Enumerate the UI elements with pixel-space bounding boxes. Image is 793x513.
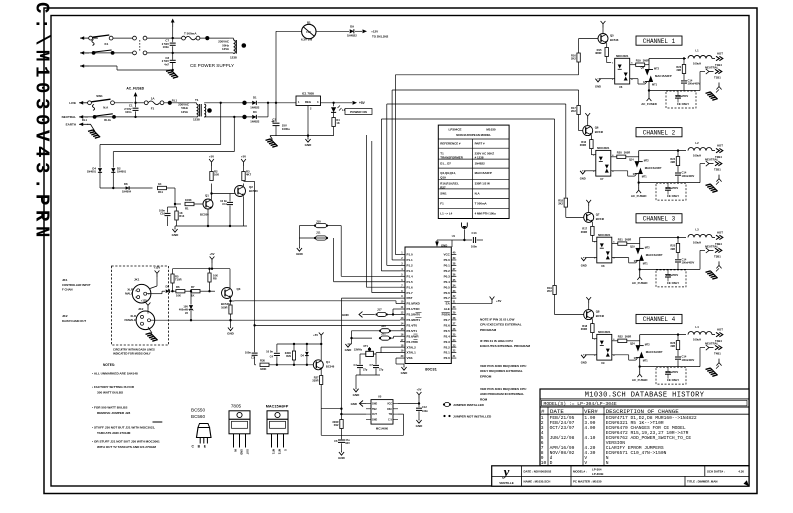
- svg-text:BC546: BC546: [596, 217, 605, 221]
- svg-text:10 0n: 10 0n: [266, 350, 273, 354]
- svg-text:360R: 360R: [625, 237, 631, 241]
- svg-text:GND: GND: [345, 348, 353, 352]
- svg-text:OCT/23/97: OCT/23/97: [550, 425, 575, 431]
- svg-text:TM: TM: [389, 414, 392, 416]
- svg-text:PROGRAM: PROGRAM: [480, 328, 497, 332]
- svg-text:D: D: [550, 460, 553, 466]
- svg-text:4.30: 4.30: [738, 469, 744, 473]
- svg-text:MOC3021: MOC3021: [616, 54, 629, 58]
- svg-text:EXECUTES INTERNAL PROGRAM: EXECUTES INTERNAL PROGRAM: [480, 344, 531, 348]
- svg-text:SW1: SW1: [440, 192, 447, 196]
- svg-text:T4B1: T4B1: [714, 352, 721, 356]
- svg-text:GND: GND: [240, 449, 244, 455]
- svg-text:39R: 39R: [670, 160, 675, 164]
- svg-text:100n/250V: 100n/250V: [666, 187, 679, 190]
- svg-text:P0.7: P0.7: [444, 296, 451, 300]
- svg-text:AC_FUSED: AC_FUSED: [631, 194, 647, 198]
- svg-text:P0.2: P0.2: [444, 269, 451, 273]
- svg-text:T1B1: T1B1: [714, 76, 721, 80]
- svg-text:Q24: Q24: [630, 343, 635, 346]
- svg-text:Q19: Q19: [630, 245, 635, 248]
- svg-text:REFERENCE #: REFERENCE #: [440, 142, 461, 146]
- svg-text:BC560: BC560: [191, 414, 205, 419]
- svg-text:L4: L4: [695, 325, 699, 329]
- svg-text:WITH OUT T2 TABCATS AND ES 27O: WITH OUT T2 TABCATS AND ES 27OHM: [97, 445, 156, 449]
- svg-text:FEMALE: FEMALE: [125, 318, 137, 322]
- svg-text:12VA: 12VA: [222, 47, 230, 51]
- svg-text:DATE: DATE: [550, 408, 564, 415]
- svg-text:100n/250V: 100n/250V: [666, 274, 679, 277]
- svg-text:2K2: 2K2: [547, 289, 552, 293]
- svg-text:MOC3021: MOC3021: [597, 146, 610, 150]
- svg-text:360R: 360R: [625, 335, 631, 339]
- svg-text:P2.4: P2.4: [444, 334, 451, 338]
- svg-text:M1030.SCH DATABASE HISTORY: M1030.SCH DATABASE HISTORY: [585, 392, 705, 400]
- svg-text:R8: R8: [213, 277, 217, 281]
- svg-text:1N4822: 1N4822: [475, 162, 486, 166]
- svg-text:80C31: 80C31: [425, 367, 438, 372]
- svg-text:D3: D3: [253, 110, 257, 114]
- svg-text:Q6: Q6: [595, 126, 599, 130]
- svg-text:GND: GND: [416, 424, 424, 428]
- svg-text:R29: R29: [286, 354, 291, 358]
- svg-text:300 WATT BULBS: 300 WATT BULBS: [97, 391, 123, 395]
- svg-text:U7: U7: [600, 177, 604, 181]
- svg-text:P3.4/T0: P3.4/T0: [407, 323, 418, 327]
- svg-text:NEUTRAL: NEUTRAL: [705, 244, 719, 248]
- svg-text:U9: U9: [601, 361, 605, 365]
- svg-text:MT1: MT1: [643, 262, 649, 265]
- svg-text:P2.6: P2.6: [444, 323, 451, 327]
- svg-text:100n: 100n: [125, 110, 132, 114]
- svg-text:P3.0/RXD: P3.0/RXD: [407, 302, 421, 306]
- svg-text:Q19: Q19: [440, 175, 446, 179]
- svg-text:+5V: +5V: [209, 252, 214, 256]
- svg-text:NAME : M1030.SCH: NAME : M1030.SCH: [524, 480, 551, 484]
- svg-text:7805: 7805: [231, 404, 242, 409]
- svg-text:POWER ON: POWER ON: [350, 110, 367, 114]
- svg-text:CE ONLY: CE ONLY: [667, 194, 679, 198]
- svg-text:IC1 7805: IC1 7805: [302, 91, 315, 95]
- svg-text:P1.4: P1.4: [407, 274, 414, 278]
- svg-text:1N4001: 1N4001: [87, 170, 97, 174]
- svg-text:G: G: [634, 357, 636, 360]
- svg-text:VENTILLE: VENTILLE: [499, 481, 514, 485]
- svg-text:63V: 63V: [345, 441, 350, 445]
- svg-text:• ALL UNMARKED ARE 1N4148: • ALL UNMARKED ARE 1N4148: [92, 371, 138, 375]
- svg-text:MOC3021: MOC3021: [598, 233, 611, 237]
- svg-text:CONTROLLER INPUT: CONTROLLER INPUT: [62, 283, 91, 287]
- svg-text:K1: K1: [105, 42, 109, 46]
- svg-text:T10R: T10R: [175, 278, 182, 282]
- svg-text:R27: R27: [440, 186, 446, 190]
- svg-text:G: G: [284, 449, 288, 451]
- svg-text:C.V: C.V: [388, 419, 392, 421]
- svg-text:B1: B1: [307, 21, 311, 25]
- svg-text:MODEL(S) := LP-304/LP-304E: MODEL(S) := LP-304/LP-304E: [544, 401, 617, 407]
- svg-text:P1.0: P1.0: [407, 253, 414, 257]
- svg-text:+5V: +5V: [359, 101, 366, 105]
- svg-text:MAC15A6FP: MAC15A6FP: [475, 171, 492, 175]
- svg-text:RL1: RL1: [172, 98, 178, 102]
- svg-text:T2B1: T2B1: [714, 168, 721, 172]
- svg-text:GND: GND: [172, 233, 180, 237]
- svg-text:1238: 1238: [193, 117, 200, 121]
- svg-text:P1.3: P1.3: [407, 269, 414, 273]
- svg-text:DAISYCHAIN OUT: DAISYCHAIN OUT: [62, 319, 86, 323]
- svg-text:P1.1: P1.1: [407, 258, 414, 262]
- svg-text:GND: GND: [372, 419, 377, 421]
- svg-text:CHANNEL 2: CHANNEL 2: [643, 129, 676, 136]
- svg-text:T3B1: T3B1: [714, 254, 721, 258]
- svg-text:C7: C7: [369, 363, 373, 367]
- svg-text:P0.0: P0.0: [444, 258, 451, 262]
- svg-text:HOT: HOT: [717, 230, 723, 234]
- svg-text:AC_FUSED: AC_FUSED: [126, 86, 144, 90]
- svg-text:4.00: 4.00: [584, 425, 595, 431]
- svg-text:AC_FUSED: AC_FUSED: [632, 378, 648, 382]
- svg-text:12MHz: 12MHz: [354, 347, 363, 351]
- svg-text:MT2: MT2: [645, 344, 651, 347]
- svg-text:C2: C2: [272, 117, 276, 121]
- svg-text:MODEL# :: MODEL# :: [573, 469, 587, 473]
- svg-text:100n: 100n: [471, 245, 477, 249]
- svg-text:1K: 1K: [191, 293, 194, 297]
- svg-text:R20: R20: [617, 151, 622, 155]
- svg-text:F1C: F1C: [306, 30, 311, 34]
- svg-text:R21: R21: [618, 237, 623, 241]
- svg-text:JUMPER NOT INSTALLED: JUMPER NOT INSTALLED: [453, 414, 492, 418]
- svg-text:VCC: VCC: [387, 404, 392, 406]
- svg-text:L1: L1: [695, 49, 699, 53]
- svg-text:360R: 360R: [595, 51, 601, 55]
- svg-text:CE ONLY: CE ONLY: [677, 102, 689, 106]
- svg-text:P0.3: P0.3: [444, 274, 451, 278]
- svg-text:1N4822: 1N4822: [250, 105, 260, 109]
- svg-text:BC550: BC550: [191, 408, 205, 413]
- svg-text:N: N: [606, 460, 609, 466]
- svg-text:C B E: C B E: [192, 445, 208, 449]
- svg-text:y: y: [502, 464, 510, 479]
- svg-text:100n/400V: 100n/400V: [688, 82, 701, 86]
- svg-text:C4: C4: [270, 355, 274, 359]
- svg-text:360R: 360R: [580, 143, 586, 147]
- svg-text:CHANNEL 1: CHANNEL 1: [643, 38, 676, 45]
- svg-text:NEUTRAL: NEUTRAL: [705, 158, 719, 162]
- svg-text:IF PIN 31 IS HIGH CPU: IF PIN 31 IS HIGH CPU: [480, 339, 514, 343]
- svg-text:P1.7: P1.7: [407, 291, 414, 295]
- svg-text:Q8: Q8: [596, 310, 600, 314]
- svg-text:+5V: +5V: [241, 155, 246, 159]
- svg-text:VSS: VSS: [407, 356, 413, 360]
- svg-text:100uH: 100uH: [693, 338, 701, 342]
- svg-text:AC_FUSED: AC_FUSED: [632, 281, 648, 285]
- svg-text:RL1: RL1: [82, 118, 88, 122]
- svg-text:CIRCUITRY WITHIN DASH LINES: CIRCUITRY WITHIN DASH LINES: [113, 348, 155, 352]
- svg-text:R12: R12: [334, 423, 339, 427]
- svg-text:F1: F1: [440, 201, 444, 205]
- svg-text:27p: 27p: [363, 369, 368, 372]
- svg-text:4n7: 4n7: [164, 62, 169, 66]
- svg-text:1N4001: 1N4001: [117, 170, 127, 174]
- svg-text:SW1: SW1: [96, 94, 103, 98]
- svg-text:J11: J11: [316, 231, 321, 235]
- svg-text:Q4: Q4: [326, 360, 330, 364]
- svg-text:R22: R22: [618, 335, 623, 339]
- svg-text:R7: R7: [191, 285, 195, 289]
- svg-text:GND: GND: [338, 456, 346, 460]
- svg-text:BC546: BC546: [596, 314, 605, 318]
- svg-text:C11: C11: [222, 202, 227, 206]
- svg-text:TABCATS AND 27OHM: TABCATS AND 27OHM: [97, 431, 131, 435]
- svg-text:GND: GND: [227, 332, 235, 336]
- svg-text:P0.5: P0.5: [444, 285, 451, 289]
- svg-text:P1.2: P1.2: [407, 264, 414, 268]
- svg-text:+5V: +5V: [313, 333, 318, 337]
- svg-text:Q1: Q1: [205, 194, 209, 198]
- svg-text:BC546: BC546: [610, 38, 619, 42]
- svg-text:MAC15A6FP: MAC15A6FP: [646, 350, 663, 354]
- svg-text:G: G: [634, 260, 636, 263]
- svg-text:NEUTRAL: NEUTRAL: [705, 66, 719, 70]
- svg-text:G: G: [633, 173, 635, 176]
- svg-text:BC546: BC546: [326, 365, 335, 369]
- svg-text:2K2: 2K2: [558, 202, 563, 206]
- svg-text:P2.0: P2.0: [444, 356, 451, 360]
- svg-text:+5V: +5V: [209, 155, 214, 159]
- svg-text:10K: 10K: [214, 173, 219, 177]
- svg-text:GND: GND: [296, 252, 304, 256]
- svg-text:P1.6: P1.6: [407, 285, 414, 289]
- svg-text:L1 --> L4: L1 --> L4: [440, 211, 452, 215]
- svg-text:100R: 100R: [221, 305, 227, 309]
- svg-text:• OR STUFF J21 NOT BUT J36 WI: • OR STUFF J21 NOT BUT J36 WITH MOC3061: [92, 440, 160, 444]
- svg-text:HOT: HOT: [717, 144, 723, 148]
- svg-text:U5: U5: [378, 395, 382, 399]
- svg-text:T 500mA: T 500mA: [475, 201, 488, 205]
- svg-text:XTAL2: XTAL2: [407, 345, 417, 349]
- svg-text:100n/250V: 100n/250V: [666, 371, 679, 374]
- svg-text:T1: T1: [195, 98, 199, 102]
- svg-text:EARTH: EARTH: [66, 123, 76, 127]
- svg-text:330R 1/2 W: 330R 1/2 W: [475, 181, 491, 185]
- svg-text:C:\M1030V43.PRN: C:\M1030V43.PRN: [31, 2, 53, 242]
- svg-text:4 MM PTH 100u: 4 MM PTH 100u: [475, 211, 496, 215]
- svg-text:GND: GND: [353, 393, 361, 397]
- svg-text:SCH DATE# :: SCH DATE# :: [707, 469, 725, 473]
- svg-text:JK1: JK1: [134, 278, 140, 282]
- svg-text:NOTE IF PIN 31 IS LOW: NOTE IF PIN 31 IS LOW: [480, 318, 514, 322]
- svg-text:#: #: [541, 408, 545, 415]
- svg-text:BC546: BC546: [595, 130, 604, 134]
- svg-text:Q14: Q14: [629, 159, 634, 162]
- svg-text:P3.1/TXD: P3.1/TXD: [407, 307, 421, 311]
- svg-text:1N4822: 1N4822: [347, 33, 357, 37]
- svg-text:+5V: +5V: [496, 299, 501, 303]
- svg-text:MT2: MT2: [654, 68, 660, 71]
- svg-text:VER PCB 4N01 REQUIRES CPU: VER PCB 4N01 REQUIRES CPU: [480, 387, 527, 391]
- svg-text:BC560: BC560: [249, 189, 258, 193]
- svg-text:1000u: 1000u: [282, 127, 290, 131]
- svg-text:+12V: +12V: [141, 299, 148, 303]
- svg-text:100n: 100n: [245, 351, 251, 355]
- svg-text:39R: 39R: [670, 247, 675, 251]
- svg-text:360R: 360R: [643, 59, 649, 63]
- svg-text:LP-304E: LP-304E: [592, 472, 603, 476]
- svg-text:1K: 1K: [336, 121, 339, 125]
- svg-text:C4: C4: [353, 363, 357, 367]
- svg-text:100n/400V: 100n/400V: [682, 261, 695, 265]
- svg-text:JK2: JK2: [138, 307, 144, 311]
- svg-text:+12V: +12V: [371, 30, 378, 34]
- svg-text:2K2: 2K2: [571, 109, 576, 113]
- svg-text:TO 2N1,2N2: TO 2N1,2N2: [372, 35, 389, 39]
- svg-text:PSEN: PSEN: [442, 313, 450, 317]
- svg-text:EPROM: EPROM: [480, 374, 492, 378]
- svg-text:GND: GND: [305, 143, 313, 147]
- svg-text:XTAL1: XTAL1: [407, 351, 417, 355]
- svg-text:360R: 360R: [624, 151, 630, 155]
- svg-text:330K: 330K: [260, 367, 266, 371]
- svg-text:R13: R13: [179, 214, 184, 218]
- svg-text:39R: 39R: [676, 68, 681, 72]
- svg-text:R30: R30: [260, 359, 265, 363]
- svg-text:LIVE: LIVE: [69, 101, 76, 105]
- svg-text:TITLE : DIMMER_MAN: TITLE : DIMMER_MAN: [687, 480, 718, 484]
- svg-text:J30: J30: [381, 324, 386, 328]
- svg-text:360R: 360R: [581, 230, 587, 234]
- svg-text:IN: IN: [234, 449, 238, 452]
- svg-text:+5V: +5V: [417, 388, 422, 392]
- svg-text:NOTES:: NOTES:: [103, 363, 115, 367]
- svg-text:REG: REG: [305, 100, 311, 104]
- svg-text:MAC15A6FP: MAC15A6FP: [266, 405, 289, 409]
- svg-text:D4: D4: [301, 354, 305, 358]
- svg-text:C12: C12: [422, 405, 427, 409]
- svg-text:1238: 1238: [230, 55, 237, 59]
- svg-text:• FOR 500 WATT BULBS: • FOR 500 WATT BULBS: [92, 405, 127, 409]
- svg-text:RST: RST: [407, 296, 413, 300]
- svg-text:HOT: HOT: [717, 52, 723, 56]
- svg-text:AND PROGRAM IN INTERNAL: AND PROGRAM IN INTERNAL: [480, 392, 524, 396]
- svg-text:GND: GND: [441, 243, 447, 247]
- svg-text:P3.6/WR: P3.6/WR: [407, 334, 420, 338]
- svg-text:JUMPER INSTALLED: JUMPER INSTALLED: [453, 403, 485, 407]
- svg-text:MALE: MALE: [125, 292, 133, 296]
- svg-text:CE ONLY: CE ONLY: [667, 281, 679, 285]
- svg-text:MT1: MT1: [272, 449, 276, 455]
- svg-text:C13: C13: [472, 231, 477, 235]
- svg-text:MT2: MT2: [644, 160, 650, 163]
- svg-text:R19: R19: [636, 59, 641, 63]
- svg-text:T 500mA: T 500mA: [184, 32, 197, 36]
- svg-text:Q3: Q3: [237, 287, 241, 291]
- svg-text:MT2: MT2: [278, 449, 282, 455]
- svg-text:ECN#6571 C10_47N->150N: ECN#6571 C10_47N->150N: [606, 450, 667, 456]
- svg-text:100uH: 100uH: [693, 240, 701, 244]
- svg-text:GND: GND: [342, 313, 350, 317]
- svg-text:# 1238: # 1238: [475, 156, 484, 160]
- svg-text:D8: D8: [124, 182, 128, 186]
- svg-text:100uH: 100uH: [693, 62, 701, 66]
- svg-text:CE ONLY: CE ONLY: [667, 378, 679, 382]
- svg-text:P2.2: P2.2: [444, 345, 451, 349]
- svg-text:J31: J31: [381, 331, 386, 335]
- svg-text:L2: L2: [695, 141, 699, 145]
- svg-text:• STUFF J36 NOT BUT J21 WITH: • STUFF J36 NOT BUT J21 WITH MOC3021,: [92, 426, 155, 430]
- svg-text:G: G: [643, 81, 645, 84]
- svg-text:PART #: PART #: [475, 142, 485, 146]
- svg-text:4.10: 4.10: [584, 435, 595, 441]
- svg-text:REMOVE JUMPER J28: REMOVE JUMPER J28: [97, 411, 130, 415]
- svg-text:100K: 100K: [185, 198, 192, 202]
- svg-text:D9: D9: [350, 24, 354, 28]
- svg-text:GND: GND: [351, 402, 357, 406]
- svg-text:P0.6: P0.6: [444, 291, 451, 295]
- svg-text:Q5: Q5: [610, 34, 614, 38]
- svg-text:MT1: MT1: [642, 176, 648, 179]
- svg-text:P2.3: P2.3: [444, 340, 451, 344]
- svg-text:MOC3021: MOC3021: [598, 330, 611, 334]
- svg-text:1N4822: 1N4822: [250, 120, 260, 124]
- svg-text:CHANNEL 4: CHANNEL 4: [643, 316, 676, 323]
- svg-text:100n: 100n: [422, 409, 428, 413]
- svg-text:VCC: VCC: [443, 253, 450, 257]
- svg-text:P0.4: P0.4: [444, 280, 451, 284]
- svg-text:GND: GND: [401, 371, 409, 375]
- svg-text:P3.5/T1: P3.5/T1: [407, 329, 418, 333]
- svg-text:R1: R1: [185, 207, 189, 211]
- svg-text:P0.1: P0.1: [444, 264, 451, 268]
- svg-text:LP-304: LP-304: [592, 467, 602, 471]
- svg-text:P2.5: P2.5: [444, 329, 451, 333]
- svg-text:100n/250V: 100n/250V: [676, 95, 689, 98]
- svg-text:Q7: Q7: [596, 212, 600, 216]
- svg-text:CPU EXECUTES EXTERNAL: CPU EXECUTES EXTERNAL: [480, 323, 522, 327]
- svg-text:100n/400V: 100n/400V: [682, 358, 695, 362]
- svg-text:2K2: 2K2: [571, 57, 576, 61]
- svg-text:+12V: +12V: [154, 265, 161, 269]
- svg-text:330R: 330R: [312, 379, 318, 383]
- svg-text:100uH: 100uH: [693, 154, 701, 158]
- svg-text:C6: C6: [334, 439, 338, 443]
- svg-text:12VA: 12VA: [181, 110, 189, 114]
- svg-text:PC MASTER : M1030: PC MASTER : M1030: [573, 480, 602, 484]
- svg-text:100n: 100n: [163, 45, 170, 49]
- svg-text:10K: 10K: [176, 293, 181, 297]
- svg-text:GND: GND: [595, 85, 601, 89]
- svg-text:HOT: HOT: [717, 328, 723, 332]
- svg-text:U6: U6: [619, 85, 623, 89]
- svg-text:R11: R11: [158, 190, 163, 194]
- svg-text:P3.3/INT1: P3.3/INT1: [407, 318, 421, 322]
- svg-text:NON EUROPEAN MODEL: NON EUROPEAN MODEL: [456, 133, 491, 137]
- svg-text:6.3V 1W: 6.3V 1W: [301, 38, 312, 42]
- svg-text:R6: R6: [176, 285, 180, 289]
- svg-text:P3.7/RD: P3.7/RD: [407, 340, 419, 344]
- svg-text:P2.1: P2.1: [444, 351, 451, 355]
- svg-text:J10: J10: [316, 220, 321, 224]
- svg-text:M1030: M1030: [486, 128, 496, 132]
- svg-text:360R: 360R: [581, 327, 587, 331]
- svg-text:MAC15A6FP: MAC15A6FP: [646, 253, 663, 257]
- svg-text:OUT: OUT: [246, 449, 250, 455]
- svg-text:GND: GND: [580, 177, 586, 181]
- svg-text:D1... D7: D1... D7: [440, 162, 451, 166]
- svg-text:XT1: XT1: [363, 344, 368, 348]
- svg-text:MT1: MT1: [643, 360, 649, 363]
- svg-text:GND: GND: [581, 263, 587, 267]
